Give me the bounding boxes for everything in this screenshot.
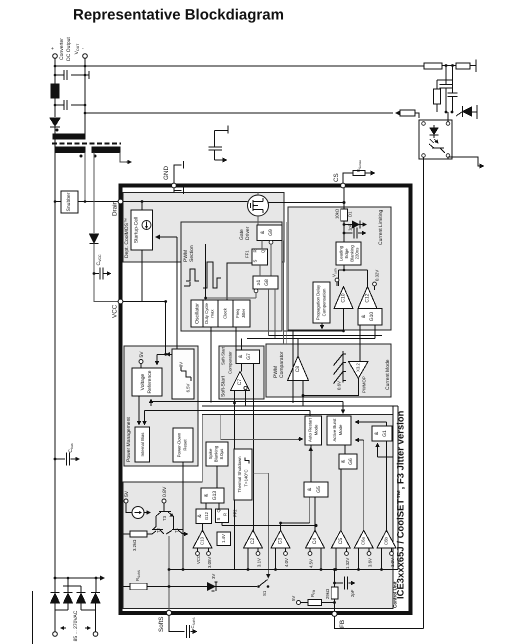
transistor T3	[156, 503, 174, 520]
svg-text:G6: G6	[348, 458, 354, 465]
svg-text:T>140°C: T>140°C	[244, 469, 249, 486]
svg-text:C10: C10	[341, 293, 347, 302]
wire mosfet top to frame line	[257, 193, 259, 196]
svg-text:G10: G10	[369, 312, 375, 322]
gate G5	[304, 482, 328, 497]
wire C10 output	[343, 309, 345, 332]
svg-text:Oscillator: Oscillator	[195, 303, 201, 324]
svg-text:VCC: VCC	[112, 304, 119, 318]
svg-text:Compensation: Compensation	[322, 288, 327, 316]
wire right output rail	[84, 58, 86, 134]
svg-text:G8: G8	[264, 279, 270, 286]
wire auto restart to G5	[310, 445, 312, 482]
svg-text:8.0µs: 8.0µs	[219, 449, 224, 460]
capacitor C_VCC	[94, 273, 108, 275]
svg-text:T2: T2	[156, 527, 161, 533]
wire softstart line	[123, 586, 207, 588]
svg-text:T1: T1	[174, 527, 179, 533]
gate G13	[201, 488, 224, 503]
optocoupler box	[419, 120, 452, 159]
svg-text:PWMOP: PWMOP	[362, 376, 367, 393]
wire T network down	[168, 536, 170, 610]
resistor 10k CS filter	[341, 209, 348, 221]
transformer secondary winding (thick bar)	[53, 134, 85, 139]
wire active burst arrows	[356, 439, 364, 441]
svg-text:5V: 5V	[124, 490, 130, 497]
comparator C6a	[354, 530, 373, 548]
svg-text:C7: C7	[237, 379, 243, 386]
svg-text:FF1: FF1	[245, 250, 250, 258]
wire voltage ref bottom to bus	[150, 400, 152, 407]
svg-text:C2: C2	[250, 538, 256, 545]
wire C13 output	[202, 523, 204, 530]
svg-text:Drain: Drain	[112, 200, 119, 216]
wire PDR output down	[182, 462, 184, 570]
TL431 shunt regulator	[463, 107, 472, 116]
svg-text:2pF: 2pF	[350, 589, 355, 597]
wire bus line 2	[202, 406, 398, 570]
wire snubber rail	[54, 139, 56, 578]
svg-text:C6a: C6a	[361, 536, 366, 544]
node 5V reference output	[139, 360, 143, 364]
wire C7 right input down	[245, 390, 247, 406]
pin GND	[172, 183, 177, 188]
internal bias box	[135, 427, 150, 462]
comparator C12	[358, 287, 377, 309]
voltage reference box	[132, 368, 162, 396]
svg-text:Duty Cycle: Duty Cycle	[204, 303, 209, 324]
svg-text:G12: G12	[204, 511, 209, 520]
svg-text:Power Management: Power Management	[126, 417, 132, 462]
wire C4 output to G5	[314, 497, 316, 530]
page margin artifact line	[32, 591, 34, 644]
sub-block Soft-Start	[219, 346, 264, 399]
wire AC range arrows	[61, 627, 66, 629]
thermal shutdown box	[234, 449, 252, 500]
bridge rectifier diode D_B2	[63, 578, 81, 592]
wire UVLO to voltage reference	[157, 353, 172, 355]
node junctions	[54, 65, 57, 68]
svg-text:Clock: Clock	[223, 307, 228, 319]
resistor 3.2k	[130, 531, 147, 537]
wire FF2 link bus	[222, 523, 316, 526]
svg-text:VCC: VCC	[196, 555, 201, 564]
wire horizontal link lines under current limiting	[247, 325, 382, 339]
pin Drain	[118, 199, 123, 204]
waveform gate timing glyph 1	[186, 269, 199, 281]
svg-text:Internal Bias: Internal Bias	[140, 433, 145, 457]
svg-text:+: +	[51, 46, 54, 52]
svg-text:1pF: 1pF	[348, 223, 353, 231]
svg-text:C13: C13	[200, 536, 205, 544]
wire VCC internal	[123, 301, 166, 303]
svg-text:max: max	[210, 309, 215, 318]
comparator C6b	[377, 530, 396, 548]
svg-text:SoftS: SoftS	[158, 617, 165, 632]
svg-text:C4: C4	[312, 538, 318, 545]
wire bridge top line	[55, 577, 104, 579]
svg-text:3.0V: 3.0V	[390, 558, 395, 567]
svg-text:CVCC: CVCC	[96, 254, 102, 265]
resistor R_SoftS	[130, 583, 147, 590]
resistor R_f2	[456, 63, 470, 69]
wire clock to FF1	[227, 263, 252, 303]
svg-text:29kΩ: 29kΩ	[325, 588, 330, 599]
wire GND stub below	[174, 187, 184, 195]
svg-text:4.5V: 4.5V	[309, 559, 314, 568]
wire CS node vertical	[343, 188, 345, 203]
IC block outer frame	[121, 186, 411, 614]
capacitor 1pF	[343, 232, 346, 235]
wire G10 to PWM OP	[359, 325, 361, 362]
diode secondary rectifier	[50, 118, 60, 126]
wire mosfet source to CS node	[269, 202, 345, 204]
switch S1	[257, 585, 260, 588]
svg-text:Spike: Spike	[208, 448, 213, 459]
spike blanking box	[206, 442, 228, 466]
svg-text:Comparator: Comparator	[279, 351, 285, 378]
wire comparator input bus	[169, 569, 398, 571]
node - terminal converter output	[83, 54, 88, 59]
svg-text:VOUT: VOUT	[74, 43, 80, 55]
svg-text:Power-Down: Power-Down	[177, 432, 182, 457]
wire FB return bottom	[335, 616, 424, 629]
box 1.4V	[217, 532, 231, 546]
wire bus line 1	[151, 402, 343, 414]
svg-text:Propagation Delay: Propagation Delay	[316, 284, 321, 320]
auto restart mode box	[305, 416, 322, 445]
wire G9 to FF1	[262, 241, 271, 276]
waveform sawtooth ramp	[334, 351, 347, 384]
wire LEB outputs	[339, 265, 368, 286]
wire TL431 to end bar	[472, 105, 478, 119]
resistor opto series R_o	[400, 110, 415, 116]
svg-text:3.6V: 3.6V	[368, 558, 373, 567]
wire G1 input arrow	[378, 406, 394, 457]
svg-text:3.2kΩ: 3.2kΩ	[132, 539, 137, 551]
optocoupler LED	[430, 128, 438, 135]
svg-text:T3: T3	[162, 515, 167, 521]
svg-text:D1: D1	[348, 211, 353, 217]
resistor comp R_c	[434, 89, 441, 104]
gate G1	[372, 426, 392, 441]
wire top line to end	[442, 65, 476, 67]
wire startup cell to VCC	[141, 250, 143, 302]
svg-text:CSoftS: CSoftS	[190, 618, 196, 629]
optocoupler phototransistor	[429, 144, 445, 153]
node AC terminal N	[93, 632, 98, 637]
pin VCC	[118, 299, 123, 304]
wire bus line 3	[145, 411, 311, 417]
capacitor output C2	[55, 100, 85, 110]
node 3.05V input C13	[207, 552, 211, 556]
wire G7 top to bus	[241, 339, 243, 351]
oscillator block	[191, 300, 250, 327]
svg-text:G13: G13	[212, 491, 218, 501]
wire VCC to UVLO	[165, 302, 167, 355]
svg-text:Cbus: Cbus	[68, 443, 74, 453]
svg-text:C3: C3	[278, 538, 284, 545]
svg-text:Soft-Start: Soft-Start	[221, 346, 226, 365]
resistor R_sense	[343, 170, 375, 183]
comparator C10	[334, 287, 353, 309]
svg-text:5V: 5V	[291, 596, 296, 601]
startup cell current source symbol	[142, 221, 151, 230]
svg-text:GND: GND	[163, 166, 170, 180]
gate G6	[339, 454, 357, 469]
comparator C4	[306, 530, 325, 548]
wire bias feeds	[138, 396, 140, 425]
pin SoftS	[166, 610, 171, 615]
wire G8 bubble to oscillator	[206, 293, 256, 298]
svg-text:Jitter: Jitter	[241, 308, 246, 318]
svg-text:Current Limiting: Current Limiting	[378, 209, 384, 245]
pin CS	[341, 183, 346, 188]
node + terminal converter output	[53, 54, 58, 59]
svg-text:Converter: Converter	[59, 38, 65, 60]
wire C7 output to G7	[241, 364, 243, 372]
svg-text:G7: G7	[246, 353, 252, 360]
svg-text:Blanking: Blanking	[214, 445, 219, 462]
svg-text:Freq: Freq	[235, 308, 240, 317]
wire opto cathode up	[447, 112, 449, 122]
svg-text:3.05V: 3.05V	[207, 557, 212, 568]
gate G7	[236, 350, 260, 364]
wire spike blanking to G13	[216, 466, 218, 488]
wire VOUT- second line	[85, 112, 393, 114]
capacitor C_SoftS	[169, 615, 197, 638]
wire G8 outputs down	[269, 289, 276, 339]
wire startup cell input from UVLO	[156, 236, 177, 238]
zener diode 3V	[207, 582, 216, 591]
bridge rectifier diode D_B3	[80, 586, 82, 592]
svg-text:Active Burst: Active Burst	[332, 418, 337, 442]
active burst mode box	[327, 416, 351, 445]
svg-text:DC Output: DC Output	[66, 37, 72, 61]
capacitor 2pF	[333, 582, 336, 585]
svg-text:10kΩ: 10kΩ	[335, 208, 340, 219]
svg-text:Dept. CoolMOS™: Dept. CoolMOS™	[124, 218, 130, 258]
startup cell box	[131, 210, 153, 250]
capacitor comp C_c2	[448, 80, 458, 112]
transformer auxiliary winding (thick bar)	[92, 147, 120, 153]
wire drain horizontal	[55, 201, 118, 203]
wire aux winding to arrow	[120, 153, 128, 163]
svg-text:Reference: Reference	[147, 370, 153, 393]
wire oscillator outputs down	[211, 327, 236, 403]
wire osc top to waveform	[205, 244, 207, 298]
wire mosfet gate down to driver	[257, 216, 259, 225]
svg-text:S1: S1	[262, 590, 267, 596]
comparator C8	[288, 356, 309, 381]
svg-text:CS: CS	[333, 173, 340, 182]
capacitor aux GND network	[208, 126, 228, 161]
svg-text:Leading: Leading	[339, 245, 344, 261]
sub-block Current Limiting	[288, 207, 391, 330]
bridge rectifier diode D_B1	[54, 578, 56, 592]
wire propdelay down arrow	[321, 323, 323, 329]
wire drain internal	[123, 201, 248, 203]
wire C3 output to G5	[281, 497, 310, 530]
svg-text:Control Unit: Control Unit	[393, 581, 398, 608]
flip-flop FF2	[216, 509, 229, 523]
sub-block Control Unit (lower, L-shaped)	[123, 415, 393, 609]
node 0.32V input	[373, 282, 377, 286]
node top end bar	[475, 60, 477, 73]
wire C8 input to bus	[292, 402, 294, 404]
diode VCC rectifier	[90, 234, 99, 243]
wire active burst to G6	[344, 445, 346, 454]
resistor FB internal pull-up R_FB	[297, 601, 301, 605]
svg-text:Comparator: Comparator	[228, 351, 233, 374]
transformer primary winding (thick bar)	[55, 147, 85, 153]
wire C7 left input down	[234, 391, 236, 570]
wire opto collector down to FB return	[423, 157, 425, 628]
svg-text:3.1V: 3.1V	[257, 558, 262, 567]
capacitor output C1	[55, 70, 85, 80]
svg-text:-: -	[82, 46, 84, 52]
transistor CoolMOS M1	[248, 195, 269, 216]
UVLO box 8V/6.5V	[172, 349, 194, 399]
svg-text:3V: 3V	[211, 574, 216, 579]
svg-text:220ns: 220ns	[355, 248, 360, 260]
gate G10	[358, 309, 382, 326]
svg-text:Mode: Mode	[338, 424, 343, 435]
svg-text:C12: C12	[365, 293, 371, 302]
svg-text:Auto Restart: Auto Restart	[308, 417, 313, 442]
svg-text:Current Mode: Current Mode	[385, 359, 391, 390]
comparator C13	[193, 530, 212, 548]
wire primary winding down to drain node	[84, 153, 86, 202]
svg-text:Edge: Edge	[344, 248, 349, 259]
svg-text:FB: FB	[339, 620, 346, 628]
diode D1	[343, 223, 346, 226]
svg-text:FF2: FF2	[233, 509, 238, 517]
svg-text:Voltage: Voltage	[140, 373, 146, 390]
wire lower feedback line arrow	[396, 112, 400, 114]
svg-text:Thermal Shutdown: Thermal Shutdown	[237, 456, 242, 493]
svg-text:4.0V: 4.0V	[284, 558, 289, 567]
wire diode to VCC pin	[94, 244, 118, 302]
node VCC input C13	[196, 552, 200, 556]
svg-text:6.5V: 6.5V	[186, 383, 191, 392]
transistor T2	[152, 520, 164, 534]
wire C8 output up	[297, 339, 299, 357]
wire AC terminals	[55, 610, 96, 632]
waveform gate timing glyph 2	[203, 262, 221, 288]
sub-block PWM Comparator / Current Mode	[266, 344, 391, 397]
comparator C7	[231, 372, 250, 391]
amplifier PWM-OP x3.2	[349, 362, 368, 379]
wire G7 output down to auto restart	[252, 364, 254, 531]
svg-text:85 ... 270VAC: 85 ... 270VAC	[73, 610, 79, 641]
wire aux winding down to VCC diode	[93, 153, 95, 234]
sub-block PWM Section	[181, 222, 282, 331]
comparator C3	[271, 530, 290, 548]
wire C8 inputs	[293, 331, 303, 407]
svg-text:1.4V: 1.4V	[221, 534, 226, 543]
svg-text:Section: Section	[189, 245, 195, 262]
svg-text:Startup-Cell: Startup-Cell	[134, 217, 140, 243]
svg-text:Representative Blockdiagram: Representative Blockdiagram	[73, 7, 284, 24]
wire PWM OP to C8	[303, 378, 358, 395]
svg-text:ICE3xxx65J / CoolSET™, F3 Jitt: ICE3xxx65J / CoolSET™, F3 Jitter version	[396, 410, 406, 599]
pin FB	[332, 611, 337, 616]
svg-text:C5: C5	[338, 538, 344, 545]
svg-text:C8: C8	[295, 366, 301, 373]
capacitor comp C_c1	[440, 66, 453, 113]
wire GND stub above	[174, 161, 184, 183]
svg-text:Soft-Start: Soft-Start	[221, 375, 227, 397]
svg-text:G1: G1	[382, 430, 388, 437]
bridge rectifier diode D_B4	[95, 578, 97, 592]
node 0.8V	[162, 499, 166, 503]
resistor 29k FB divider	[331, 587, 338, 599]
wire C6a output	[363, 440, 365, 530]
svg-text:5V: 5V	[139, 351, 145, 358]
comparator C2	[244, 530, 263, 548]
propagation delay compensation box	[313, 282, 330, 323]
wire C5 output to G6	[340, 469, 342, 530]
sub-block Power Management	[124, 346, 198, 466]
UVLO hysteresis glyph	[181, 367, 191, 377]
node Vcsth input	[335, 278, 339, 282]
svg-text:0.32V: 0.32V	[375, 270, 380, 281]
wire opto emitter to arrow	[448, 157, 482, 166]
svg-text:8V: 8V	[179, 362, 184, 367]
wire gap verticals	[284, 222, 287, 344]
wire VOUT+ top line	[55, 65, 424, 67]
svg-text:R: R	[253, 249, 258, 252]
transformer core dashed line	[52, 143, 121, 145]
svg-text:R: R	[223, 513, 228, 516]
node AC terminal L	[53, 632, 58, 637]
capacitor C_bus	[54, 458, 57, 461]
current source I1	[126, 503, 132, 513]
svg-text:Reset: Reset	[183, 439, 188, 451]
svg-text:Snubber: Snubber	[66, 192, 72, 211]
flip-flop FF1	[252, 249, 268, 265]
leading edge blanking box	[336, 242, 361, 265]
svg-text:G9: G9	[268, 229, 274, 236]
wire C6b output	[386, 422, 388, 530]
wire G13 to G12/FF2	[206, 503, 219, 509]
svg-text:Driver: Driver	[245, 226, 251, 240]
wire FF1 to G8	[259, 265, 261, 276]
wire left output rail	[54, 58, 56, 134]
svg-text:≥1: ≥1	[256, 280, 262, 286]
svg-text:X3.2: X3.2	[356, 362, 361, 371]
resistor bleeder (filled)	[51, 84, 59, 98]
svg-text:G5: G5	[316, 486, 322, 493]
node 5V lower	[124, 499, 128, 503]
svg-text:S: S	[216, 518, 221, 521]
svg-text:C6b: C6b	[384, 536, 389, 544]
snubber box	[61, 191, 78, 213]
sub-block Dept CoolMOS	[123, 193, 284, 263]
comparator C5	[331, 530, 350, 548]
svg-text:Mode: Mode	[314, 424, 319, 435]
gate G12	[196, 509, 212, 524]
svg-text:1.32V: 1.32V	[345, 558, 350, 569]
transistor T1	[166, 520, 188, 534]
svg-text:S: S	[253, 260, 258, 263]
power-down reset box	[173, 428, 193, 462]
resistor feedback upper R_f1	[424, 63, 442, 69]
gate G8 OR	[253, 276, 278, 289]
gate G9 driver	[257, 225, 282, 241]
wire bridge bottoms	[55, 603, 96, 610]
